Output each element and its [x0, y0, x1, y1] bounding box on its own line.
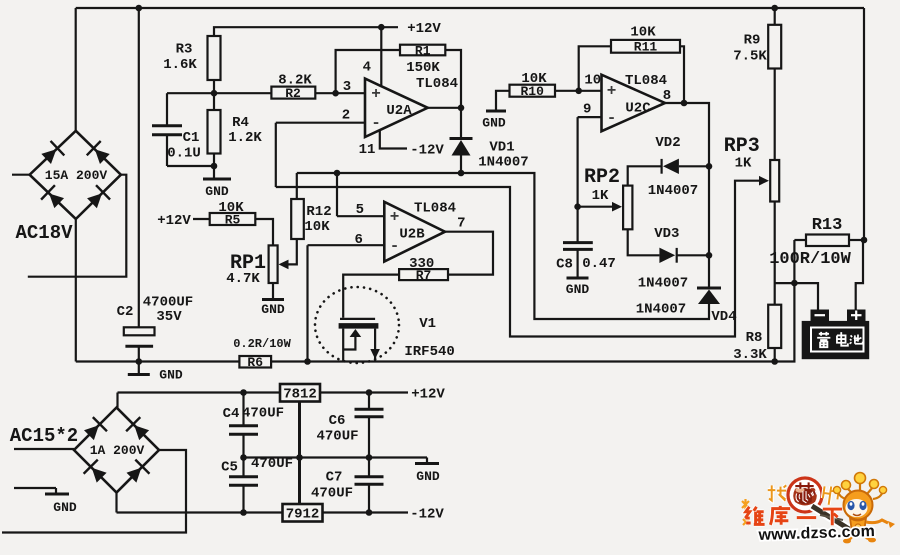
sparkle marks [742, 499, 749, 525]
resistor R7 330 [399, 256, 448, 283]
svg-text:10K: 10K [630, 25, 656, 41]
svg-text:C7: C7 [326, 470, 343, 486]
power supply: mid ground rail [244, 456, 428, 458]
potentiometer RP2 1K [584, 166, 632, 229]
battery 蓄电池 [802, 321, 870, 359]
svg-text:+: + [607, 82, 617, 100]
wire: bridge B2 plus up to rail [116, 393, 118, 408]
svg-text:0.2R/10W: 0.2R/10W [233, 337, 291, 351]
svg-text:-: - [371, 114, 381, 132]
svg-text:GND: GND [482, 116, 506, 131]
svg-text:GND: GND [53, 500, 77, 515]
wire: feedback riser to R1 left [336, 50, 400, 93]
ground symbol under C8 [566, 278, 590, 297]
wire: bridge B2 minus down to rail [115, 493, 117, 513]
resistor R1 150K [400, 44, 445, 77]
svg-text:7912: 7912 [286, 507, 320, 523]
battery terminal minus [811, 310, 830, 322]
svg-text:5: 5 [356, 202, 364, 218]
diode VD1 1N4007 [450, 139, 529, 174]
svg-text:R3: R3 [176, 42, 193, 58]
svg-text:1.2K: 1.2K [228, 130, 262, 146]
watermark logo group [742, 478, 839, 525]
node: rail junction to C2 [136, 5, 143, 12]
wire: RP2 bottom to VD3 [628, 229, 660, 255]
bridge rectifier B1 15A 200V [30, 131, 121, 219]
resistor R9 7.5K [733, 8, 781, 69]
wire: U2A pin 11 to -12V [380, 130, 407, 148]
svg-text:150K: 150K [406, 60, 440, 76]
wire: R10 to U2C pin 10 [555, 90, 602, 92]
svg-text:3: 3 [343, 79, 351, 95]
svg-text:U2A: U2A [386, 103, 412, 119]
svg-text:VD1: VD1 [489, 140, 514, 156]
regulator 7912 [283, 504, 323, 523]
svg-text:R13: R13 [812, 216, 843, 235]
transistor V1 IRF540 [315, 287, 455, 363]
regulator 7812 [280, 384, 320, 403]
wire: R9 to RP3 [774, 69, 776, 161]
wire: RP3 bottom to battery minus node [774, 202, 776, 305]
svg-text:GND: GND [566, 282, 590, 297]
wire: R2 to U2A pin 3 [315, 92, 365, 94]
svg-text:1.6K: 1.6K [163, 57, 197, 73]
svg-text:1N4007: 1N4007 [638, 276, 688, 292]
svg-text:10K: 10K [304, 219, 330, 235]
svg-text:330: 330 [409, 256, 434, 272]
svg-text:R6: R6 [247, 355, 263, 370]
svg-text:GND: GND [205, 184, 229, 199]
ground symbol at R10 [482, 111, 506, 131]
magnifier stick [812, 506, 849, 529]
svg-text:470UF: 470UF [316, 429, 358, 445]
wire: main positive top rail [76, 7, 864, 9]
capacitor C6 470UF [316, 393, 383, 458]
wire: pin6 drop to ground bus [306, 245, 308, 361]
diode VD3 1N4007 [638, 226, 709, 292]
wire: C2 feed from rail [138, 8, 140, 327]
node: RP2 wiper tap [574, 203, 581, 210]
wire: R11 right to U2C output [680, 46, 684, 103]
svg-text:C5: C5 [221, 460, 238, 476]
svg-text:1N4007: 1N4007 [478, 155, 528, 171]
node: C6 tap on +12V rail [366, 389, 373, 396]
svg-text:RP2: RP2 [584, 166, 620, 189]
svg-text:C8: C8 [556, 257, 573, 273]
char 池 (white) [850, 334, 863, 343]
node: rail junction to R9 [771, 5, 778, 12]
wire: drop to U2B pin 5 [336, 173, 338, 216]
bridge rectifier B2 1A 200V [74, 408, 159, 493]
node: U2C output junction with R11 [681, 100, 688, 107]
wire: R1 right to U2A output [445, 50, 461, 108]
wire: R7 to MOSFET gate [343, 275, 399, 318]
wire: VD1 junction row to R12 top [297, 172, 461, 174]
wire: R5 to RP1 top [255, 219, 273, 245]
logo circle [788, 478, 822, 512]
wire: bridge B1 minus output down to ground bus [75, 219, 77, 362]
svg-text:C1: C1 [183, 130, 200, 146]
svg-text:AC15*2: AC15*2 [10, 425, 78, 447]
svg-text:-: - [607, 109, 617, 127]
svg-text:0.47: 0.47 [582, 256, 616, 272]
wire: AC input second leg of bridge B1 [28, 175, 127, 277]
wire: ground bus left segment [76, 360, 240, 362]
svg-text:1K: 1K [592, 188, 609, 204]
svg-text:7812: 7812 [283, 387, 317, 403]
node: R8 bottom on bus [771, 358, 778, 365]
wire: RP1 wiper arrowhead [279, 260, 289, 270]
wire: rail down to battery plus [856, 240, 863, 310]
node: C2 to ground bus [136, 358, 143, 365]
svg-text:-: - [390, 237, 400, 255]
svg-text:10K: 10K [218, 200, 244, 216]
svg-text:C4: C4 [223, 406, 240, 422]
node: regulator ground on mid rail [296, 454, 303, 461]
char 电 (white) [837, 332, 848, 346]
wire: U2A output [428, 107, 461, 109]
wire: AC input left to bridge B2 [14, 448, 74, 450]
svg-text:9: 9 [583, 102, 591, 118]
head [844, 491, 873, 520]
wire: R10 ground stub [496, 91, 510, 110]
node: C7 tap on -12V rail [366, 509, 373, 516]
wire: ground bus right segment [271, 283, 794, 361]
resistor R6 0.2R/10W [233, 337, 291, 370]
wire: RP3 wiper arrowhead [759, 176, 769, 186]
svg-text:+: + [371, 85, 381, 103]
svg-text:3.3K: 3.3K [733, 347, 767, 363]
char 芯 (dark red, white halo) [795, 482, 815, 501]
svg-text:GND: GND [261, 302, 285, 317]
power supply: top +12V rail [118, 391, 281, 393]
svg-text:1K: 1K [735, 156, 752, 172]
wire: top-left drop to bridge rectifier [75, 8, 77, 131]
wire: riser to R11 [579, 46, 611, 91]
battery terminal plus [847, 310, 866, 322]
node: R4/C1 bottom junction [211, 163, 218, 170]
svg-text:7.5K: 7.5K [733, 49, 767, 65]
capacitor C4 470UF [223, 393, 284, 458]
wire: AC input second leg of bridge B2 [2, 450, 186, 533]
watermark mascot [812, 473, 895, 544]
svg-text:TL084: TL084 [625, 73, 667, 89]
char 蓄 (white) [817, 332, 830, 347]
op-amp U2B TL084 [354, 201, 465, 262]
svg-text:1N4007: 1N4007 [636, 302, 686, 318]
resistor R3 1.6K [163, 36, 220, 80]
svg-text:+12V: +12V [407, 21, 441, 37]
wire: pin2 drop to feedback run [275, 123, 277, 187]
svg-text:TL084: TL084 [414, 201, 456, 217]
svg-text:R4: R4 [232, 115, 249, 131]
char 找 (golden, white halo) [768, 485, 786, 500]
wire: R12 bottom to RP1 wiper [281, 239, 297, 264]
wire: RP1 bottom to ground [272, 283, 274, 299]
node: VD2 to output string [706, 163, 713, 170]
wire: U2B pin 5 input [337, 215, 384, 217]
svg-text:+: + [390, 208, 400, 226]
wire: U2B output loop to R7 [445, 232, 493, 275]
svg-text:U2B: U2B [399, 227, 425, 243]
svg-text:6: 6 [354, 232, 362, 248]
watermark text 维库一下 (orange-red) [745, 506, 842, 525]
body and limbs [850, 518, 866, 534]
svg-text:15A 200V: 15A 200V [45, 168, 108, 183]
svg-text:4.7K: 4.7K [226, 271, 260, 287]
wire: RP2 top to VD2 [628, 166, 662, 185]
svg-text:IRF540: IRF540 [404, 344, 454, 360]
antenna crown [838, 482, 883, 499]
resistor R12 10K [291, 199, 331, 239]
node: C4/C5 tap on mid rail [240, 454, 247, 461]
wire: VD1 junction link to VD4 [461, 173, 709, 319]
node: C5 tap on -12V rail [240, 509, 247, 516]
svg-text:V1: V1 [419, 316, 436, 332]
capacitor C5 470UF [221, 456, 293, 513]
wire: RP2 wiper arrowhead [612, 202, 622, 212]
svg-text:35V: 35V [156, 309, 182, 325]
resistor R13 100R/10W [769, 216, 864, 283]
svg-text:GND: GND [416, 469, 440, 484]
ground symbol under R4 [203, 179, 231, 199]
node: R3/R4/R2/C1 junction [211, 90, 218, 97]
svg-text:10: 10 [584, 73, 601, 89]
ground symbol under RP1 [261, 300, 285, 318]
resistor R4 1.2K [208, 110, 263, 154]
wire: U2A pin 4 supply drop [380, 27, 382, 86]
svg-text:8: 8 [663, 88, 671, 104]
node: pin3 feedback junction [332, 90, 339, 97]
wire: jog to battery minus node [775, 282, 795, 284]
svg-text:470UF: 470UF [311, 486, 353, 502]
resistor R8 3.3K [733, 305, 781, 363]
potentiometer RP1 4.7K [226, 245, 277, 287]
svg-text:VD3: VD3 [654, 226, 679, 242]
diode VD2 1N4007 [648, 135, 709, 199]
svg-text:10K: 10K [521, 71, 547, 87]
diode VD4 1N4007 [636, 288, 737, 325]
resistor R10 10K [510, 71, 556, 99]
resistor R5 10K [210, 200, 256, 228]
node: battery minus node [791, 280, 798, 287]
capacitor C8 0.47 [556, 243, 616, 277]
op-amp U2A TL084 [342, 60, 458, 159]
node: VD3 to output string [706, 252, 713, 259]
capacitor C7 470UF [311, 458, 384, 513]
power supply: bottom -12V rail [117, 511, 283, 513]
wire: battery minus lead [794, 283, 818, 310]
svg-text:7: 7 [457, 216, 465, 232]
resistor R11 10K [611, 25, 680, 55]
svg-text:470UF: 470UF [251, 456, 293, 472]
resistor R2 8.2K [271, 73, 315, 102]
wire: U2B pin 6 input [308, 244, 385, 246]
node: R11 feedback tap at pin10 [575, 88, 582, 95]
svg-text:R9: R9 [744, 33, 761, 49]
wire: U2C output to diode string [665, 103, 709, 288]
wire: drop to R12 [296, 173, 298, 199]
svg-text:470UF: 470UF [242, 406, 284, 422]
wire: right rail drop to R13 node [863, 8, 865, 240]
node: R13 right to rail [861, 237, 868, 244]
wire: U2A pin2 long run to RP3 wiper [276, 181, 766, 337]
svg-text:+12V: +12V [157, 213, 191, 229]
wire: RP2 wiper feed [578, 206, 619, 208]
svg-text:TL084: TL084 [416, 76, 458, 92]
wire: regulator ground leg [298, 402, 301, 505]
capacitor C1 0.1U [152, 93, 214, 166]
wire: R4 bottom [213, 154, 215, 179]
wire: U2A pin 2 input [276, 122, 365, 124]
wire: junction row to C1 branch and R2 [167, 92, 271, 94]
wire: +12V feed to R3 and U2A pin4 [214, 27, 398, 36]
svg-text:AC18V: AC18V [15, 222, 73, 244]
node: pin5 tap on junction row [334, 170, 341, 177]
wire: +12V to R5 [193, 218, 210, 220]
svg-text:R1: R1 [415, 44, 431, 59]
char 片 (golden, white halo) [822, 486, 839, 506]
svg-text:1A 200V: 1A 200V [90, 443, 145, 458]
ground symbol PSU [415, 458, 440, 485]
capacitor C2 4700UF 35V [117, 295, 194, 362]
svg-text:-12V: -12V [410, 507, 444, 523]
node: pin6 drop on bus [304, 358, 311, 365]
svg-text:VD2: VD2 [655, 135, 680, 151]
wire: output down to VD1 [460, 108, 462, 139]
node: VD1 anode junction [458, 170, 465, 177]
svg-text:4: 4 [363, 60, 371, 76]
wire: R3 bottom to junction [213, 80, 215, 110]
svg-text:1N4007: 1N4007 [648, 183, 698, 199]
svg-text:0.1U: 0.1U [167, 146, 201, 162]
node: U2A output junction [458, 105, 465, 112]
ground symbol at C2 [128, 362, 183, 383]
node: C6/C7 tap on mid rail [366, 454, 373, 461]
potentiometer RP3 1K [724, 135, 779, 202]
svg-text:C6: C6 [329, 413, 346, 429]
svg-text:+12V: +12V [411, 387, 445, 403]
svg-text:R12: R12 [306, 204, 331, 220]
wire: AC input left to bridge B1 [12, 174, 30, 176]
svg-text:8.2K: 8.2K [278, 73, 312, 89]
wire: AC ground stub [14, 487, 56, 489]
svg-text:VD4: VD4 [711, 309, 736, 325]
svg-text:R8: R8 [746, 330, 763, 346]
wire: pin9 drop to C8 [576, 117, 578, 242]
node: C4 tap on +12V rail [240, 389, 247, 396]
node: pin4 supply tap [378, 24, 385, 31]
svg-text:100R/10W: 100R/10W [769, 250, 851, 269]
op-amp U2C TL084 [583, 73, 671, 132]
svg-text:11: 11 [359, 142, 376, 158]
svg-text:-12V: -12V [410, 143, 444, 159]
svg-text:R11: R11 [634, 40, 658, 55]
wire: U2C pin 9 input [578, 116, 602, 118]
svg-text:C2: C2 [117, 304, 134, 320]
svg-text:2: 2 [342, 108, 350, 124]
svg-text:U2C: U2C [625, 101, 651, 117]
ground symbol at AC input [45, 488, 77, 515]
svg-text:GND: GND [159, 368, 183, 383]
